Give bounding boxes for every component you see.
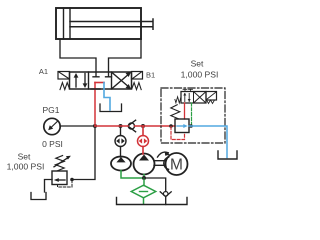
motor M1 (166, 153, 188, 175)
svg-text:0 PSI: 0 PSI (42, 139, 63, 149)
valve left box arrows (75, 76, 77, 88)
pump P1 (111, 157, 131, 171)
node main junction (93, 124, 97, 128)
wire cylinder cap port to valve A (60, 39, 96, 72)
relief valve RV1 body (52, 171, 67, 185)
relief valve RV1 pilot line (58, 180, 73, 187)
wire flow indicator to pump 1 (120, 147, 122, 158)
tank under valve (100, 104, 122, 112)
node P-line left (119, 124, 123, 128)
pump P2 (134, 154, 155, 175)
relief valve RV2 body (175, 119, 189, 133)
flow indicator FI1 (115, 136, 126, 147)
wire gauge to node (60, 125, 95, 127)
filter F1 (131, 185, 155, 198)
cylinder rod (70, 19, 153, 29)
RV2 internal arrow (blue) (177, 125, 185, 127)
svg-text:M: M (170, 157, 183, 174)
tank at RV1 (31, 193, 46, 200)
valve center box blocked port A (93, 72, 99, 77)
svg-text:B1: B1 (146, 71, 155, 80)
valve right box crossed arrows (112, 73, 130, 89)
green line to filter (143, 178, 145, 186)
spring left (60, 83, 70, 90)
solenoid B1 box (132, 72, 143, 80)
node RV2 outlet (189, 124, 193, 128)
svg-text:Set: Set (18, 152, 31, 162)
node suction junction (142, 176, 146, 180)
wire suction junction to check valve CV2 (144, 178, 166, 192)
cylinder barrel (56, 8, 141, 39)
mini valve spring (175, 97, 181, 103)
flow indicator FI2 (red) (138, 136, 149, 147)
valve center box blocked port B (106, 72, 112, 77)
wire valve bottom edge overlay (91, 88, 100, 90)
solenoid A1 box (58, 72, 70, 80)
shaft coupling (154, 161, 165, 166)
relief valve RV1 adjustment arrow (54, 157, 68, 166)
red pressure line from valve P to main line (94, 83, 96, 127)
wire node down to relief inlet (72, 126, 95, 180)
red path inside valve center (95, 82, 104, 84)
main tank (117, 198, 188, 205)
relief valve RV2 spring (171, 105, 180, 119)
green drain line (191, 103, 193, 126)
RV2 pilot line (red dashed) (171, 127, 185, 140)
mini valve solenoid box (206, 92, 217, 101)
svg-text:1,000 PSI: 1,000 PSI (7, 161, 45, 171)
svg-text:A1: A1 (39, 67, 48, 76)
check valve CV2 (163, 192, 168, 197)
svg-text:Set: Set (191, 59, 204, 69)
cylinder piston (63, 8, 65, 39)
proportional pilot valve (mini) (181, 92, 206, 104)
green line filter to tank (143, 198, 145, 204)
node P-line right (141, 124, 145, 128)
spring right (132, 83, 141, 90)
red line down to pump2 (142, 126, 144, 136)
green suction line pump2 (143, 175, 145, 179)
wire relief outlet to tank (45, 180, 53, 193)
enclosure (manifold boundary) (161, 88, 225, 143)
svg-text:PG1: PG1 (42, 105, 59, 115)
red pilot line mini valve to main stage (184, 103, 186, 119)
wire cylinder rod port to valve B (109, 39, 142, 72)
blue tank path from valve center (104, 83, 110, 111)
mini valve solenoid spring right (207, 100, 215, 104)
mini valve pilot ticks on top (183, 89, 193, 91)
wire node to flow indicator left (120, 126, 122, 136)
node RV2 inlet (169, 124, 173, 128)
red main pressure line (95, 125, 128, 127)
valve body (70, 72, 132, 89)
node relief inlet (70, 178, 74, 182)
check valve CV1 (128, 123, 134, 129)
green suction line pump1 (121, 171, 144, 179)
relief valve RV1 spring (56, 156, 65, 171)
pressure gauge PG1 (44, 118, 60, 134)
tank right (218, 151, 237, 159)
svg-text:1,000 PSI: 1,000 PSI (181, 69, 219, 79)
blue return line to tank (189, 126, 227, 158)
